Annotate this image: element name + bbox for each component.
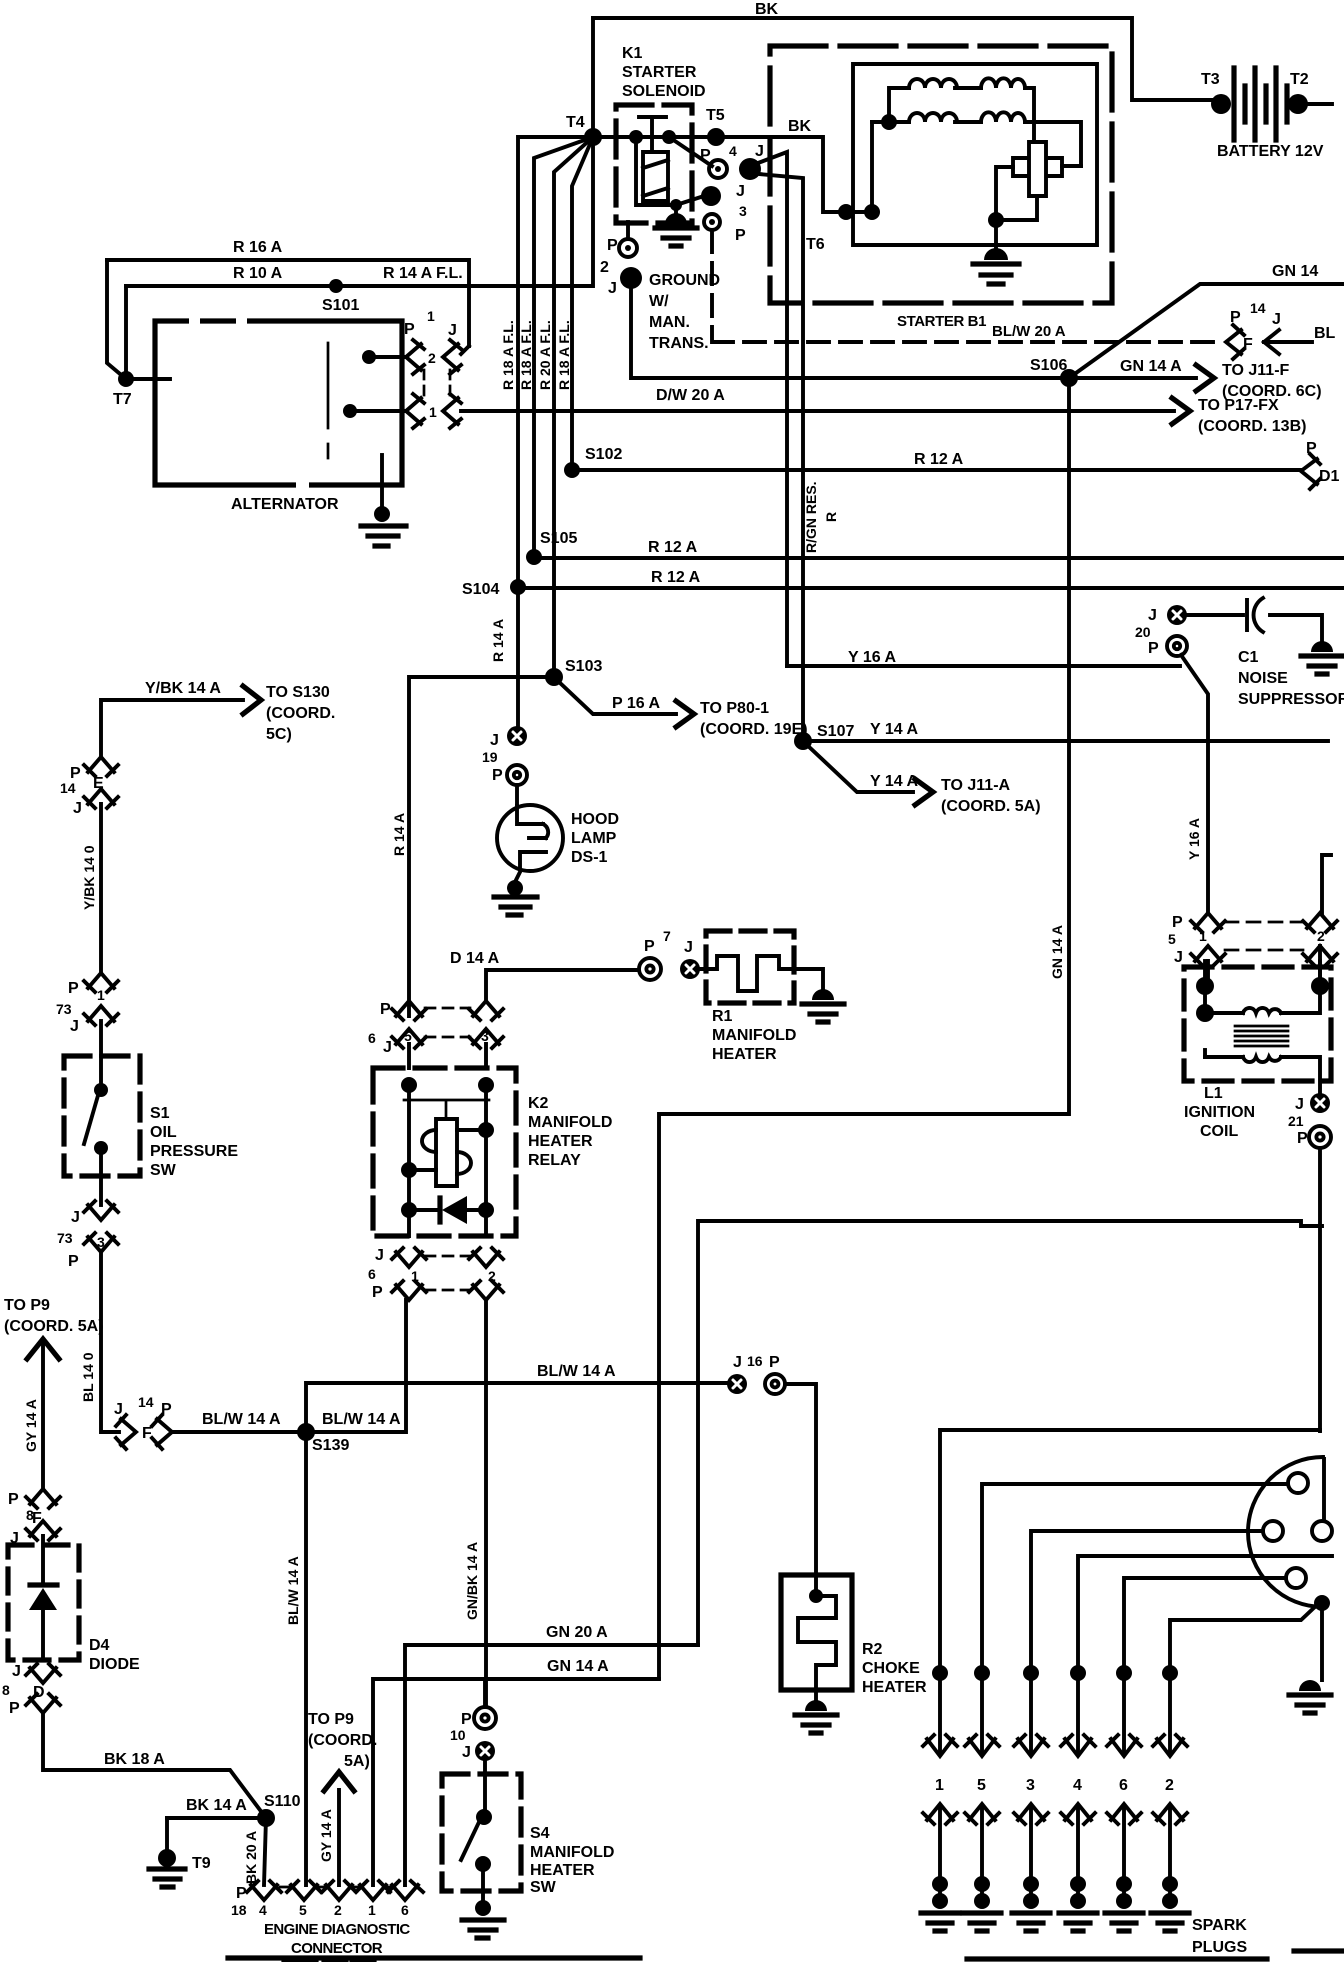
K1 left pin wire: [636, 137, 676, 205]
svg-text:P: P: [404, 321, 415, 338]
svg-text:2: 2: [1317, 928, 1325, 944]
svg-text:(COORD.: (COORD.: [308, 1732, 377, 1749]
svg-text:MAN.: MAN.: [649, 314, 690, 331]
svg-text:6: 6: [368, 1030, 376, 1046]
wire R1 to ground: [794, 969, 823, 989]
wire plug 3 line: [1031, 1531, 1263, 1752]
wire P 16 A: [558, 681, 676, 714]
distributor terminal center: [1312, 1521, 1332, 1541]
connector J19: [516, 588, 520, 725]
svg-text:TO P80-1: TO P80-1: [700, 700, 769, 717]
connector P16: [765, 1374, 785, 1394]
wire BL/W 14 A (to S139): [172, 1300, 406, 1432]
svg-text:5: 5: [404, 1028, 412, 1044]
svg-text:GY 14 A: GY 14 A: [318, 1809, 334, 1862]
node distributor ground junction: [1314, 1595, 1330, 1611]
wire P16 to R2: [785, 1384, 816, 1593]
wire GN riser to L1: [698, 1221, 1322, 1645]
svg-text:J: J: [70, 1018, 79, 1035]
wire S110 to pin4: [264, 1818, 266, 1885]
wire Y/BK 14 A: [101, 700, 243, 757]
svg-text:R 18 A F.L.: R 18 A F.L.: [500, 320, 516, 390]
svg-text:20: 20: [1135, 624, 1151, 640]
ground (R1): [812, 989, 834, 1000]
svg-text:P: P: [735, 227, 746, 244]
arrow TO P9 (GY 14 A): [337, 1790, 341, 1885]
svg-text:HEATER: HEATER: [528, 1133, 593, 1150]
svg-text:1: 1: [368, 1902, 376, 1918]
distributor terminal bottom: [1286, 1568, 1306, 1588]
battery T2 terminal: [1288, 94, 1308, 114]
node S102: [564, 462, 580, 478]
svg-text:D/W 20 A: D/W 20 A: [656, 387, 725, 404]
svg-text:CHOKE: CHOKE: [862, 1660, 920, 1677]
capacitor C1: [1187, 600, 1322, 640]
node T7: [107, 260, 170, 379]
svg-text:16: 16: [747, 1353, 763, 1369]
connector P19: [507, 765, 527, 785]
alternator pin 2: [362, 350, 376, 364]
svg-text:J: J: [1148, 607, 1157, 624]
wire GN 14 A (S106 east): [1069, 376, 1196, 380]
spark plug col 3: [1023, 1665, 1039, 1681]
node S106: [1060, 369, 1078, 387]
svg-text:S1: S1: [150, 1105, 170, 1122]
svg-text:P: P: [380, 1001, 391, 1018]
svg-text:C1: C1: [1238, 649, 1259, 666]
connector J3: [701, 186, 721, 206]
svg-text:(COORD. 13B): (COORD. 13B): [1198, 418, 1306, 435]
node starter ground junction: [988, 212, 1004, 228]
svg-text:1: 1: [411, 1268, 419, 1284]
svg-text:6: 6: [368, 1266, 376, 1282]
svg-text:S103: S103: [565, 658, 602, 675]
svg-text:Y 16 A: Y 16 A: [848, 649, 896, 666]
connector pin1 pin2 arrows (J/P bottom): [392, 1248, 426, 1267]
connector pin5 arrows (P/J top): [392, 1001, 426, 1020]
svg-text:1: 1: [427, 308, 435, 324]
wire R 12 A (S105): [534, 556, 1344, 560]
svg-text:J: J: [1174, 949, 1183, 966]
wire fusible link col1: [518, 137, 593, 587]
switch S4 box: [442, 1774, 521, 1891]
svg-text:SW: SW: [530, 1879, 557, 1896]
distributor center feed: [1322, 1459, 1326, 1521]
node starter coil junction: [881, 114, 897, 130]
svg-text:S139: S139: [312, 1437, 349, 1454]
svg-text:S106: S106: [1030, 357, 1067, 374]
wire BK 18 A: [43, 1713, 266, 1818]
svg-text:2: 2: [488, 1268, 496, 1284]
svg-text:J: J: [755, 143, 764, 160]
svg-text:2: 2: [600, 259, 609, 276]
svg-text:R1: R1: [712, 1008, 733, 1025]
svg-text:(COORD. 19E): (COORD. 19E): [700, 721, 808, 738]
node T5: [707, 128, 725, 146]
svg-text:TO P9: TO P9: [4, 1297, 50, 1314]
L1 core: [1235, 1026, 1288, 1046]
wire BK 14 A: [167, 1816, 266, 1820]
svg-text:SW: SW: [150, 1162, 177, 1179]
wire P20 to Y16A column: [1181, 655, 1208, 913]
wire R 14 A (S103 to K2): [409, 677, 554, 1016]
K1 pin left: [629, 130, 643, 144]
spark plug col 6: [1116, 1665, 1132, 1681]
svg-text:BL 14 0: BL 14 0: [80, 1352, 96, 1402]
svg-text:73: 73: [57, 1230, 73, 1246]
svg-text:MANIFOLD: MANIFOLD: [712, 1027, 796, 1044]
wire GY 14 A TO P9: [41, 1345, 45, 1489]
alternator inner bar: [327, 343, 330, 458]
distributor terminal top: [1288, 1473, 1308, 1493]
svg-text:HEATER: HEATER: [530, 1862, 595, 1879]
spark plug col 1: [932, 1665, 948, 1681]
alternator box: [155, 321, 402, 485]
svg-text:6: 6: [401, 1902, 409, 1918]
svg-text:T2: T2: [1290, 71, 1309, 88]
svg-text:R 10 A: R 10 A: [233, 265, 283, 282]
svg-text:J: J: [448, 322, 457, 339]
svg-text:GN 14: GN 14: [1272, 263, 1318, 280]
connector P3: [704, 214, 720, 230]
svg-text:J: J: [684, 939, 693, 956]
svg-text:T7: T7: [113, 391, 132, 408]
relay K1 box: [616, 105, 692, 223]
K1 switch blade: [669, 137, 712, 166]
wire R 16 A: [107, 260, 469, 346]
svg-text:PLUGS: PLUGS: [1192, 1939, 1247, 1956]
svg-text:TO S130: TO S130: [266, 684, 330, 701]
svg-text:S105: S105: [540, 530, 577, 547]
spark plug col 5: [974, 1665, 990, 1681]
svg-text:T6: T6: [806, 236, 825, 253]
starter inner frame: [853, 64, 1097, 245]
K2 pin columns inside: [409, 1085, 486, 1236]
wire plug 1 line: [940, 1430, 1320, 1752]
svg-text:2: 2: [334, 1902, 342, 1918]
svg-text:5A): 5A): [344, 1753, 370, 1770]
node S139: [297, 1423, 315, 1441]
ground T9: [165, 1818, 169, 1852]
svg-text:P: P: [607, 237, 618, 254]
wire BL/W 20 A dashed: [712, 231, 1222, 342]
engine diagnostic connector pins: [247, 1881, 281, 1900]
svg-text:GROUND: GROUND: [649, 272, 720, 289]
arrow TO J11-F: [1196, 365, 1214, 391]
svg-text:R: R: [823, 512, 839, 522]
svg-text:R 20 A F.L.: R 20 A F.L.: [537, 320, 553, 390]
svg-text:LAMP: LAMP: [571, 830, 617, 847]
svg-text:P: P: [236, 1885, 247, 1902]
node S101: [329, 279, 343, 293]
svg-text:TO J11-A: TO J11-A: [941, 777, 1011, 794]
diode D4 box: [8, 1545, 79, 1660]
svg-text:DS-1: DS-1: [571, 849, 608, 866]
svg-text:CONNECTOR: CONNECTOR: [291, 1940, 383, 1957]
svg-text:5: 5: [299, 1902, 307, 1918]
K2 armature bar: [404, 1100, 489, 1119]
svg-text:BL/W 14 A: BL/W 14 A: [285, 1556, 301, 1625]
svg-text:1: 1: [97, 987, 105, 1003]
svg-text:7: 7: [663, 928, 671, 944]
svg-text:COIL: COIL: [1200, 1123, 1238, 1140]
lamp DS-1: [515, 785, 519, 806]
svg-text:2: 2: [428, 350, 436, 366]
svg-text:14: 14: [1250, 300, 1266, 316]
K1 plunger: [639, 117, 666, 152]
K2 coil wires: [409, 1130, 486, 1170]
wire Y/BK 14 0: [99, 804, 103, 973]
svg-text:P: P: [68, 1253, 79, 1270]
heater R2 box: [781, 1575, 852, 1690]
svg-text:P: P: [1148, 640, 1159, 657]
spark plug col 2: [1162, 1665, 1178, 1681]
svg-text:8: 8: [2, 1682, 10, 1698]
wire BK top: [593, 18, 1214, 100]
wire fusible link col4: [572, 137, 593, 470]
svg-text:P 16 A: P 16 A: [612, 695, 660, 712]
svg-text:21: 21: [1288, 1113, 1304, 1129]
wire D 14 A: [486, 970, 637, 1001]
connector P arrow pin1: [406, 394, 424, 428]
svg-text:RELAY: RELAY: [528, 1152, 581, 1169]
svg-text:10: 10: [450, 1727, 466, 1743]
svg-text:K1: K1: [622, 45, 643, 62]
svg-text:J: J: [736, 183, 745, 200]
L1 secondary: [1205, 1057, 1320, 1093]
svg-text:GY 14 A: GY 14 A: [23, 1399, 39, 1452]
svg-text:18: 18: [231, 1902, 247, 1918]
svg-text:F: F: [1243, 336, 1253, 353]
svg-text:TRANS.: TRANS.: [649, 335, 709, 352]
wire D/W 20 A: [461, 409, 1174, 413]
diode D4: [41, 1536, 45, 1660]
distributor terminal left: [1263, 1521, 1283, 1541]
node S110: [257, 1809, 275, 1827]
svg-text:73: 73: [56, 1001, 72, 1017]
svg-text:(COORD. 5A): (COORD. 5A): [4, 1318, 104, 1335]
connector J7: [680, 959, 700, 979]
svg-text:ENGINE DIAGNOSTIC: ENGINE DIAGNOSTIC: [264, 1921, 410, 1938]
battery T3 terminal: [1211, 94, 1231, 114]
spark plug columns: [921, 1665, 959, 1931]
svg-text:P: P: [492, 767, 503, 784]
svg-text:BL/W 14 A: BL/W 14 A: [322, 1411, 401, 1428]
svg-text:19: 19: [482, 749, 498, 765]
svg-text:STARTER B1: STARTER B1: [897, 313, 986, 330]
connector P5 pin1 arrows: [1191, 913, 1225, 932]
svg-text:D4: D4: [89, 1637, 110, 1654]
svg-text:J: J: [114, 1401, 123, 1418]
svg-text:P: P: [769, 1354, 780, 1371]
svg-text:R 12 A: R 12 A: [648, 539, 698, 556]
wire BL 14 0: [101, 1252, 119, 1432]
svg-text:J: J: [733, 1354, 742, 1371]
svg-text:S101: S101: [322, 297, 359, 314]
svg-text:R/GN RES.: R/GN RES.: [803, 481, 819, 553]
wire plug 2 line: [1170, 1604, 1318, 1752]
svg-text:R 16 A: R 16 A: [233, 239, 283, 256]
svg-text:J: J: [375, 1247, 384, 1264]
connector E (P 14 J): [84, 757, 118, 776]
ground (starter): [994, 220, 998, 248]
svg-text:STARTER: STARTER: [622, 64, 697, 81]
K2 coil: [436, 1119, 457, 1186]
wire fusible link col3: [554, 137, 593, 677]
svg-text:(COORD.: (COORD.: [266, 705, 335, 722]
svg-text:S102: S102: [585, 446, 622, 463]
connector J arrow pin1: [443, 394, 461, 428]
svg-text:2: 2: [1165, 1777, 1174, 1794]
spark plug col 4: [1070, 1665, 1086, 1681]
svg-text:NOISE: NOISE: [1238, 670, 1288, 687]
connector J4: [739, 158, 761, 180]
svg-text:P: P: [461, 1711, 472, 1728]
svg-text:SOLENOID: SOLENOID: [622, 83, 706, 100]
node S105: [526, 549, 542, 565]
svg-text:K2: K2: [528, 1095, 549, 1112]
svg-text:J: J: [462, 1744, 471, 1761]
wire fusible link col2: [534, 137, 593, 557]
switch S1 contacts: [99, 1056, 103, 1088]
svg-text:P: P: [1297, 1130, 1308, 1147]
svg-text:3: 3: [739, 203, 747, 219]
svg-text:P: P: [644, 938, 655, 955]
connector 3 (J 73 P): [99, 1176, 103, 1205]
svg-text:BK: BK: [788, 118, 812, 135]
starter armature: [1013, 142, 1062, 196]
svg-text:BL/W 14 A: BL/W 14 A: [537, 1363, 616, 1380]
connector F (P 8 J above D4): [26, 1489, 60, 1508]
K2 diode: [437, 1198, 442, 1222]
svg-text:R2: R2: [862, 1641, 883, 1658]
svg-text:T4: T4: [566, 114, 585, 131]
svg-text:Y 14 A: Y 14 A: [870, 773, 918, 790]
svg-text:R 12 A: R 12 A: [914, 451, 964, 468]
svg-text:Y 16 A: Y 16 A: [1186, 818, 1202, 860]
svg-text:4: 4: [729, 143, 737, 159]
heater R2 element: [809, 1589, 823, 1603]
wire BK elbow T5 to starter: [716, 137, 873, 212]
svg-text:6: 6: [1119, 1777, 1128, 1794]
svg-text:P: P: [1306, 440, 1317, 457]
wire plug 5 line: [982, 1484, 1288, 1752]
arrow TO P80-1: [676, 701, 694, 727]
node S103: [545, 668, 563, 686]
ground (distributor): [1299, 1680, 1321, 1691]
switch S1 box: [64, 1056, 140, 1176]
svg-text:14: 14: [138, 1394, 154, 1410]
svg-text:R 14 A: R 14 A: [391, 813, 407, 856]
svg-text:(COORD. 6C): (COORD. 6C): [1222, 383, 1322, 400]
svg-text:MANIFOLD: MANIFOLD: [528, 1114, 612, 1131]
connector J20: [1167, 605, 1187, 625]
svg-text:J: J: [12, 1663, 21, 1680]
L1 pin1 dots: [1196, 977, 1214, 995]
svg-text:GN 14 A: GN 14 A: [1049, 925, 1065, 979]
connector P10: [483, 1679, 487, 1707]
svg-text:3: 3: [1026, 1777, 1035, 1794]
wire R 12 A (S102): [572, 468, 1300, 472]
ground (hood lamp): [516, 870, 521, 880]
wire starter riser: [870, 122, 874, 212]
starter field coil row1: [889, 88, 1034, 142]
arrow TO J11-A: [915, 779, 933, 805]
svg-text:GN 20 A: GN 20 A: [546, 1624, 608, 1641]
svg-text:4: 4: [259, 1902, 267, 1918]
K1 coil: [643, 152, 668, 201]
wire J4 to T6 risers: [758, 152, 803, 735]
svg-text:BK: BK: [755, 1, 779, 18]
svg-text:GN/BK 14 A: GN/BK 14 A: [464, 1542, 480, 1620]
svg-text:J: J: [71, 1209, 80, 1226]
svg-text:HOOD: HOOD: [571, 811, 619, 828]
ground (alternator): [380, 455, 384, 513]
svg-text:P: P: [372, 1284, 383, 1301]
node starter a: [838, 204, 854, 220]
svg-text:W/: W/: [649, 293, 669, 310]
wire BL/W 14 A (S139 up and right): [306, 1383, 737, 1432]
svg-text:(COORD. 5A): (COORD. 5A): [941, 798, 1041, 815]
connector P5 pin2 arrows: [1303, 855, 1337, 932]
svg-text:T9: T9: [192, 1855, 211, 1872]
svg-text:BATTERY 12V: BATTERY 12V: [1217, 143, 1324, 160]
battery B plates: [1234, 68, 1276, 140]
wire GN 14 diagonal: [1069, 284, 1344, 378]
K1 pin right: [662, 130, 676, 144]
connector P2: [626, 222, 630, 238]
svg-text:5: 5: [1168, 931, 1176, 947]
starter armature wires: [996, 166, 1081, 220]
connector J21: [1310, 1093, 1330, 1113]
svg-text:14: 14: [60, 780, 76, 796]
svg-text:BL/W 14 A: BL/W 14 A: [202, 1411, 281, 1428]
svg-text:SUPPRESSOR: SUPPRESSOR: [1238, 691, 1344, 708]
svg-text:P: P: [1230, 309, 1241, 326]
connector F (J 14 P mid): [116, 1415, 136, 1449]
svg-text:TO J11-F: TO J11-F: [1222, 362, 1290, 379]
wire GROUND W/ MAN. TRANS.: [631, 289, 1069, 378]
svg-text:P: P: [9, 1700, 20, 1717]
svg-text:GN 14 A: GN 14 A: [1120, 358, 1182, 375]
node T4: [584, 128, 602, 146]
wire GN 14 A main column: [659, 378, 1069, 1678]
connector J arrow pin2: [443, 340, 469, 374]
svg-text:S110: S110: [264, 1793, 301, 1810]
starter field coil row2: [872, 122, 1081, 166]
wire Y 14 A (S107 east): [803, 739, 1328, 743]
svg-text:1: 1: [429, 404, 437, 420]
svg-text:DIODE: DIODE: [89, 1656, 140, 1673]
ground (C1): [1311, 641, 1333, 652]
svg-text:R 18 A F.L.: R 18 A F.L.: [556, 320, 572, 390]
connector J10: [475, 1741, 495, 1761]
svg-text:J: J: [73, 800, 82, 817]
svg-text:5: 5: [977, 1777, 986, 1794]
svg-text:P: P: [68, 980, 79, 997]
svg-text:J: J: [490, 732, 499, 749]
L1 primary: [1205, 946, 1320, 1013]
wire P21 down: [1318, 1148, 1322, 1431]
svg-text:J: J: [383, 1039, 392, 1056]
svg-text:HEATER: HEATER: [712, 1046, 777, 1063]
svg-text:SPARK: SPARK: [1192, 1917, 1247, 1934]
K2 pin dots: [401, 1077, 417, 1093]
wire GN 20 A: [405, 1645, 698, 1885]
svg-text:BL/W 20 A: BL/W 20 A: [992, 323, 1066, 340]
svg-text:R 18 A F.L.: R 18 A F.L.: [518, 320, 534, 390]
connector D (J 8 P below D4): [26, 1664, 60, 1683]
